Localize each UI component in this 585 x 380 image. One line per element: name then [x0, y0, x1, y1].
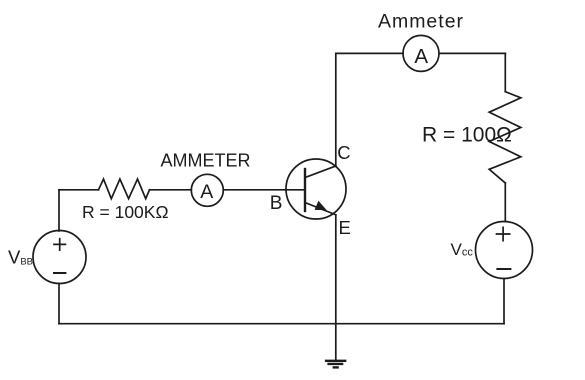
svg-text:C: C	[337, 142, 350, 163]
svg-text:E: E	[339, 217, 351, 238]
svg-text:R = 100Ω: R = 100Ω	[422, 123, 512, 146]
svg-text:AMMETER: AMMETER	[161, 151, 251, 171]
svg-text:Vcc: Vcc	[451, 240, 474, 259]
svg-text:A: A	[200, 181, 213, 203]
svg-text:R = 100KΩ: R = 100KΩ	[82, 202, 169, 222]
svg-text:A: A	[414, 45, 428, 68]
svg-text:B: B	[270, 193, 283, 214]
svg-text:Ammeter: Ammeter	[378, 11, 464, 33]
svg-text:VBB: VBB	[8, 247, 33, 268]
